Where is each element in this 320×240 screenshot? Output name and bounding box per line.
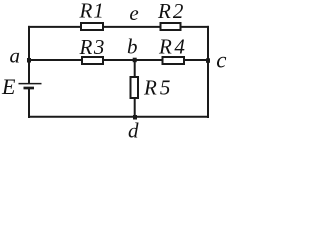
- svg-text:e: e: [129, 1, 138, 25]
- svg-text:a: a: [10, 44, 21, 68]
- svg-text:R3: R3: [79, 35, 106, 59]
- svg-text:R5: R5: [143, 76, 173, 100]
- svg-text:c: c: [216, 48, 226, 73]
- svg-text:R1: R1: [79, 0, 105, 23]
- svg-text:b: b: [127, 35, 138, 59]
- svg-text:d: d: [128, 119, 139, 143]
- svg-text:R4: R4: [158, 35, 187, 59]
- svg-text:R2: R2: [157, 0, 185, 23]
- svg-text:E: E: [1, 74, 16, 99]
